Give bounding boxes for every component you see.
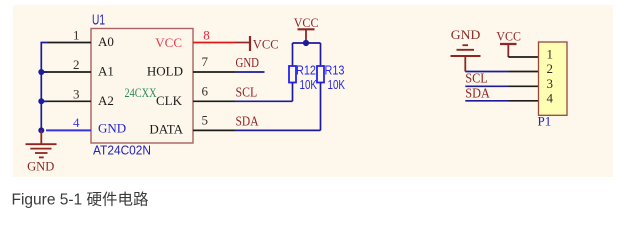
ground bar 4 (39, 156, 44, 158)
svg-text:A0: A0 (98, 34, 114, 49)
connector P1 body (539, 42, 568, 115)
IC U1 body AT24C02N (91, 29, 193, 144)
svg-text:7: 7 (202, 54, 209, 69)
wire SDA net (235, 129, 321, 131)
resistor R13 top lead (320, 43, 322, 66)
ground middle bar (457, 49, 475, 51)
wire SCL to P1 pin3 (465, 85, 508, 87)
wire pin8 to VCC port (235, 42, 250, 44)
resistor R13 bottom lead (320, 83, 322, 131)
svg-text:AT24C02N: AT24C02N (93, 143, 151, 158)
svg-text:SCL: SCL (236, 85, 258, 100)
VCC stem near P1 (507, 44, 509, 57)
VCC power port bar (298, 28, 315, 30)
svg-text:2: 2 (73, 57, 80, 72)
pin 7 stub (193, 71, 235, 73)
schematic sheet background (13, 5, 613, 177)
junction on rail (303, 40, 309, 46)
svg-text:GND: GND (98, 121, 126, 136)
junction at pin 2 (38, 69, 44, 75)
svg-text:GND: GND (27, 159, 54, 174)
svg-text:8: 8 (203, 28, 210, 43)
svg-text:GND: GND (451, 27, 481, 42)
pin 6 stub (193, 100, 235, 102)
wire SDA to P1 pin4 (465, 100, 508, 102)
svg-text:DATA: DATA (149, 122, 183, 137)
svg-text:2: 2 (547, 61, 554, 76)
ground stem down to pin2 wire (464, 56, 466, 72)
resistor R12 top lead (292, 43, 294, 66)
svg-text:1: 1 (73, 28, 80, 43)
svg-text:R12: R12 (296, 63, 316, 77)
wire nub pin2 (41, 71, 47, 73)
svg-text:Figure 5-1 硬件电路: Figure 5-1 硬件电路 (12, 191, 149, 209)
svg-text:CLK: CLK (156, 93, 183, 108)
svg-text:VCC: VCC (253, 36, 279, 51)
wire: top rail between resistors (293, 42, 321, 44)
connector P1 pin1 stub (508, 56, 538, 58)
ground bar 1 (26, 143, 57, 145)
svg-text:SDA: SDA (236, 114, 260, 129)
ground bar 3 (35, 152, 48, 154)
pin 3 stub (43, 100, 91, 102)
svg-text:VCC: VCC (155, 35, 182, 50)
svg-text:VCC: VCC (294, 15, 319, 30)
svg-text:24CXX: 24CXX (125, 85, 157, 100)
wire SCL net (235, 100, 293, 102)
svg-text:GND: GND (236, 56, 260, 71)
ground bar 2 (30, 148, 51, 150)
VCC power port stem (305, 29, 307, 43)
svg-text:10K: 10K (328, 78, 346, 92)
resistor R13 body (317, 66, 324, 83)
pin 4 stub (blue) (46, 129, 91, 131)
svg-text:1: 1 (547, 47, 554, 62)
pin 1 stub (48, 42, 92, 44)
ground small bar (463, 44, 469, 46)
pin 2 stub (43, 71, 91, 73)
junction at pin 4 (38, 127, 44, 133)
svg-text:10K: 10K (300, 78, 318, 92)
svg-text:U1: U1 (92, 13, 105, 29)
junction at pin 3 (38, 98, 44, 104)
ground wide bar (451, 55, 481, 57)
svg-text:R13: R13 (325, 63, 345, 77)
VCC power port bar (pin8) (249, 36, 251, 51)
resistor R12 bottom lead (292, 83, 294, 102)
svg-text:A1: A1 (98, 64, 114, 79)
pin 5 stub (193, 129, 235, 131)
ground symbol bottom-left: stem (40, 130, 42, 144)
svg-text:SDA: SDA (465, 86, 490, 101)
svg-text:HOLD: HOLD (147, 64, 183, 79)
svg-text:A2: A2 (98, 93, 114, 108)
svg-text:4: 4 (73, 115, 80, 130)
svg-text:3: 3 (547, 76, 554, 91)
connector P1 pin4 stub (509, 100, 539, 102)
connector P1 pin2 stub (509, 71, 539, 73)
svg-text:VCC: VCC (496, 29, 521, 44)
svg-text:4: 4 (547, 90, 554, 105)
svg-text:5: 5 (202, 113, 209, 128)
wire nub pin3 (41, 100, 47, 102)
svg-text:3: 3 (73, 86, 80, 101)
pin 8 stub (red) (193, 42, 235, 44)
svg-text:P1: P1 (538, 114, 552, 129)
wire: left vertical bus (41, 43, 48, 131)
VCC bar near P1 (500, 43, 517, 45)
wire GND net stub (235, 71, 265, 73)
resistor R12 body (289, 66, 296, 83)
svg-text:6: 6 (202, 83, 209, 98)
wire GND to P1 pin2 (465, 71, 508, 73)
connector P1 pin3 stub (509, 85, 539, 87)
svg-text:SCL: SCL (465, 72, 488, 87)
